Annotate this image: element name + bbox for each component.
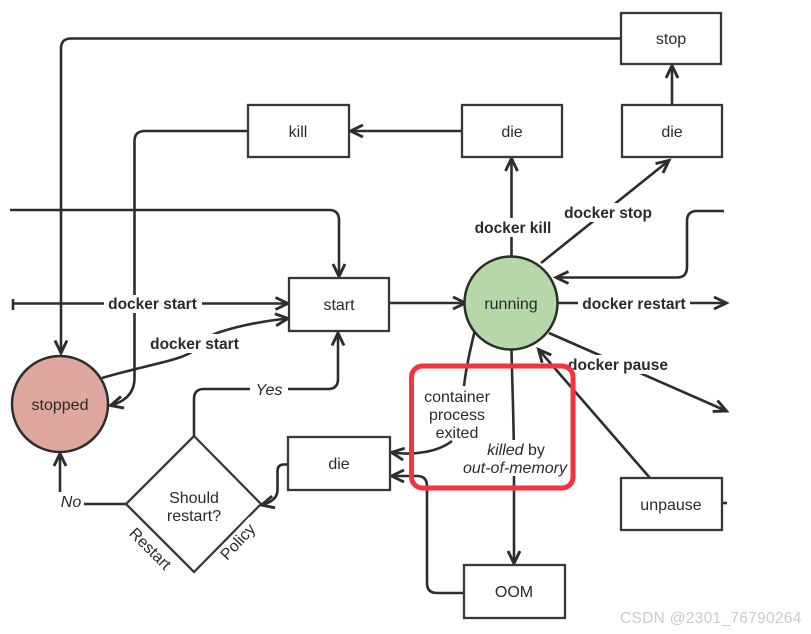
wire die-to-diamond	[262, 465, 290, 506]
label docker start top	[104, 295, 202, 313]
node stopped	[12, 356, 108, 452]
wire docker-start-to-start-left	[13, 302, 288, 305]
label killed by out-of-memory	[461, 440, 569, 477]
tick docker-start line start	[12, 299, 15, 310]
svg-text:docker stop: docker stop	[564, 205, 652, 222]
svg-text:No: No	[61, 494, 82, 511]
wire no-path diamond-to-stopped-bottom	[60, 454, 126, 505]
box start	[289, 278, 389, 331]
label docker kill	[470, 218, 556, 237]
wire stopped-to-start curved docker start	[102, 319, 288, 379]
svg-text:process: process	[429, 407, 485, 424]
wire docker-pause	[549, 333, 727, 411]
red highlight box	[412, 366, 574, 488]
box stop	[621, 13, 721, 64]
svg-text:Yes: Yes	[256, 382, 283, 399]
label Restart rotated	[122, 521, 177, 576]
label docker restart	[582, 296, 685, 313]
box die top-right	[622, 105, 722, 157]
svg-text:stopped: stopped	[32, 397, 89, 414]
wire running-to-container-exited	[464, 330, 475, 386]
svg-text:die: die	[328, 456, 349, 473]
wire stop-to-stopped top line	[61, 39, 621, 354]
svg-text:unpause: unpause	[640, 497, 701, 514]
svg-text:Should: Should	[169, 490, 219, 507]
label Yes	[250, 380, 288, 399]
diamond should-restart	[126, 436, 261, 572]
svg-text:killed by: killed by	[487, 442, 545, 459]
svg-text:CSDN @2301_76790264: CSDN @2301_76790264	[620, 610, 802, 627]
wire killed-by-oom running-to-OOM	[512, 349, 515, 564]
stub unpause right	[722, 502, 727, 505]
wire docker-kill running-to-die	[510, 159, 513, 258]
label No	[58, 492, 84, 511]
svg-text:docker start: docker start	[150, 336, 239, 353]
wire right-return-to-running	[556, 211, 724, 278]
box die bottom	[288, 437, 390, 490]
wire running-to-docker-restart-right	[558, 302, 727, 305]
wire left-entry-to-start-top	[10, 210, 339, 277]
wire die-to-kill	[351, 130, 463, 133]
svg-text:die: die	[661, 124, 682, 141]
box die top-middle	[462, 105, 562, 157]
label docker stop	[560, 203, 656, 222]
svg-text:docker restart: docker restart	[582, 296, 685, 313]
wire kill-to-stopped	[111, 131, 249, 406]
svg-text:stop: stop	[656, 31, 686, 48]
wire die-to-stop	[671, 66, 674, 106]
svg-text:restart?: restart?	[167, 508, 221, 525]
label docker start curved	[145, 334, 245, 353]
wire yes-path diamond-to-start-bottom	[194, 333, 338, 436]
svg-text:kill: kill	[289, 124, 308, 141]
label docker pause	[566, 355, 670, 374]
node running	[465, 257, 558, 350]
box unpause	[621, 478, 722, 530]
svg-text:die: die	[501, 124, 522, 141]
box kill	[248, 105, 349, 157]
svg-text:docker kill: docker kill	[475, 220, 552, 237]
svg-text:docker pause: docker pause	[568, 357, 668, 374]
svg-text:running: running	[484, 296, 537, 313]
svg-text:start: start	[323, 297, 355, 314]
svg-text:out-of-memory: out-of-memory	[463, 460, 568, 477]
svg-text:container: container	[424, 389, 490, 406]
svg-text:docker start: docker start	[108, 296, 197, 313]
wire container-exited-to-die	[392, 441, 453, 454]
wire docker-stop running-to-die	[541, 161, 669, 264]
box OOM	[464, 565, 565, 618]
label container process exited	[424, 389, 490, 442]
wire OOM-loop-to-die	[392, 476, 465, 593]
wire unpause-to-running	[539, 350, 651, 479]
svg-text:OOM: OOM	[495, 584, 533, 601]
svg-text:exited: exited	[436, 425, 479, 442]
label Policy rotated	[214, 517, 263, 567]
wire start-to-running	[390, 302, 466, 305]
